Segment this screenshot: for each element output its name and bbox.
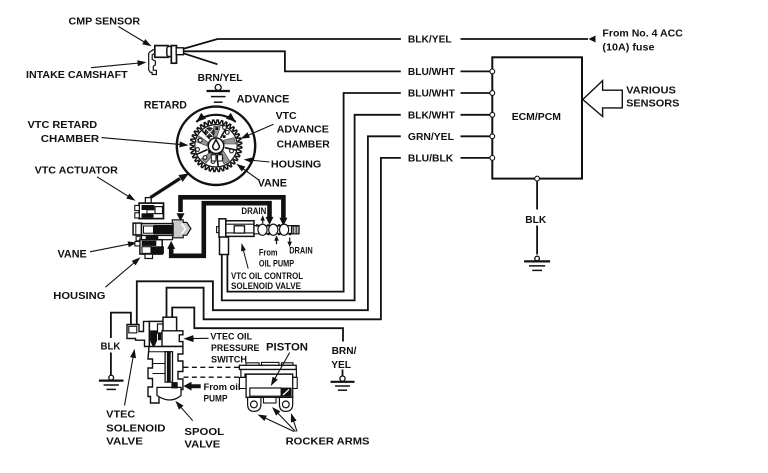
arrow VANE (gear) pointer	[242, 168, 258, 180]
svg-text:VTEC OIL: VTEC OIL	[210, 331, 252, 342]
wire BLU/BLK ECM pin 5 to VTEC oil pressure switch	[461, 157, 491, 159]
VTC actuator gear: lower detail rects	[211, 155, 216, 161]
oil pump feed arrow (valve bottom)	[276, 239, 278, 245]
arrow VTC ACTUATOR pointer	[97, 177, 129, 197]
svg-text:VALVE: VALVE	[184, 439, 220, 451]
arrow HOUSING (gear) pointer	[251, 160, 270, 162]
svg-text:INTAKE CAMSHAFT: INTAKE CAMSHAFT	[26, 69, 128, 81]
svg-text:From oil: From oil	[204, 382, 241, 393]
wire GRN/YEL ECM pin 4 to VTEC solenoid valve	[461, 135, 491, 137]
svg-text:From No. 4 ACC: From No. 4 ACC	[602, 29, 683, 40]
svg-text:From: From	[259, 248, 278, 258]
wire BLK/YEL from CMP sensor to fuse	[184, 39, 401, 49]
VTC actuator gear: bolt holes	[198, 138, 202, 142]
svg-text:VTC OIL CONTROL: VTC OIL CONTROL	[231, 271, 303, 281]
arrow VTC ADVANCE CHAMBER pointer	[247, 124, 273, 136]
svg-text:HOUSING: HOUSING	[53, 290, 105, 302]
svg-text:RETARD: RETARD	[144, 99, 187, 111]
VTC actuator gear: sprocket teeth	[190, 120, 242, 172]
thick arrow actuator to gear	[151, 179, 181, 198]
ECM pin 4	[490, 134, 495, 139]
svg-text:VTC: VTC	[276, 110, 297, 122]
svg-text:DRAIN: DRAIN	[289, 246, 313, 256]
VTC actuator gear: chamber walls	[225, 148, 237, 151]
svg-text:VTC ACTUATOR: VTC ACTUATOR	[35, 164, 119, 176]
arrow SPOOL VALVE pointer	[180, 406, 193, 421]
VTC actuator gear: hub with keyhole	[208, 138, 224, 154]
VARIOUS SENSORS block arrow	[583, 81, 623, 117]
ECM pin 2	[490, 91, 495, 96]
svg-text:CHAMBER: CHAMBER	[41, 133, 100, 145]
svg-text:BRN/: BRN/	[332, 345, 357, 357]
white diag marks on piston end	[283, 390, 289, 396]
label BLK pointer arrow (VTEC solenoid valve)	[125, 356, 134, 406]
CMP sensor body	[149, 46, 184, 75]
svg-text:PISTON: PISTON	[266, 342, 308, 354]
svg-text:BLK: BLK	[525, 214, 546, 226]
piston and rocker arm assembly	[239, 362, 297, 411]
arrow PISTON pointer	[274, 353, 289, 380]
ground symbol BRN/YEL (pressure switch)	[340, 376, 345, 381]
wire BRN/YEL CMP sensor ground lead	[184, 53, 218, 64]
wire BLK VTEC solenoid valve to ground	[111, 313, 131, 338]
arrow ROCKER ARMS pointer 2	[277, 412, 296, 431]
VTC actuator assembly (side view)	[133, 198, 191, 259]
drain arrow (valve bottom right)	[289, 238, 291, 244]
wire BLU/WHT CMP signal to ECM pin 1	[184, 51, 401, 71]
VTC actuator gear: vanes	[223, 138, 235, 144]
svg-text:VALVE: VALVE	[106, 436, 143, 448]
svg-text:DRAIN: DRAIN	[241, 206, 266, 216]
arrow VTC OIL CONTROL SOLENOID VALVE pointer	[243, 249, 248, 268]
svg-text:VTC RETARD: VTC RETARD	[28, 119, 98, 131]
svg-text:SENSORS: SENSORS	[626, 99, 680, 110]
wire BLK ECM ground	[536, 181, 538, 210]
thick oil line: advance passage (actuator top to valve)	[181, 197, 284, 218]
svg-text:VTEC: VTEC	[106, 409, 136, 421]
svg-text:BLU/WHT: BLU/WHT	[408, 67, 455, 78]
arrow INTAKE CAMSHAFT pointer	[91, 63, 139, 68]
svg-text:PRESSURE: PRESSURE	[211, 343, 259, 354]
svg-text:BLU/WHT: BLU/WHT	[408, 89, 455, 100]
VTC actuator gear: hatched bolt	[205, 128, 214, 137]
svg-text:PUMP: PUMP	[204, 393, 229, 404]
svg-text:ADVANCE: ADVANCE	[237, 94, 290, 106]
svg-text:HOUSING: HOUSING	[271, 159, 321, 171]
wire BRN/YEL pressure switch to ground	[172, 308, 343, 342]
arrow ROCKER ARMS pointer 3	[293, 420, 297, 432]
svg-text:GRN/YEL: GRN/YEL	[408, 132, 454, 143]
VTC oil control solenoid valve body	[217, 219, 299, 255]
svg-text:VANE: VANE	[58, 248, 87, 260]
svg-text:ECM/PCM: ECM/PCM	[512, 111, 562, 123]
oil passage dashed lines to piston	[184, 366, 241, 368]
arrow ROCKER ARMS pointer 1	[264, 418, 294, 432]
svg-text:SOLENOID VALVE: SOLENOID VALVE	[231, 281, 301, 291]
arrow VTEC OIL PRESSURE SWITCH pointer	[192, 337, 209, 339]
VTC actuator gear: housing outer circle	[177, 107, 255, 185]
ground symbol BLK (ECM)	[535, 256, 540, 261]
arrow VTC RETARD CHAMBER pointer	[102, 138, 182, 145]
arrow HOUSING (actuator) pointer	[105, 262, 135, 287]
svg-text:BLK/YEL: BLK/YEL	[408, 35, 452, 46]
arrow VANE (actuator) pointer	[90, 244, 130, 252]
svg-text:SOLENOID: SOLENOID	[106, 422, 166, 434]
arrow CMP SENSOR pointer	[119, 27, 146, 43]
svg-text:(10A) fuse: (10A) fuse	[602, 42, 655, 53]
ECM ground pin	[535, 176, 540, 181]
svg-text:OIL PUMP: OIL PUMP	[259, 258, 294, 268]
ground symbol BLK (VTEC solenoid valve)	[109, 375, 114, 380]
svg-text:BLK: BLK	[101, 341, 121, 353]
retard/advance curved arrow	[196, 115, 235, 122]
svg-text:SWITCH: SWITCH	[211, 354, 247, 365]
From oil PUMP solid arrow	[184, 382, 201, 391]
wire BLK/WHT ECM pin 3 to VTC oil control solenoid valve	[461, 114, 491, 116]
svg-text:SPOOL: SPOOL	[184, 426, 224, 438]
svg-text:CMP SENSOR: CMP SENSOR	[69, 15, 141, 27]
svg-text:CHAMBER: CHAMBER	[277, 138, 331, 150]
svg-text:ROCKER ARMS: ROCKER ARMS	[286, 436, 370, 448]
ground symbol BRN/YEL (CMP sensor)	[215, 84, 221, 90]
svg-text:BRN/YEL: BRN/YEL	[198, 72, 243, 84]
wire BLU/WHT ECM pin 2 to VTC oil control solenoid valve	[461, 92, 491, 94]
ECM pin 5	[490, 156, 495, 161]
svg-text:BLK/WHT: BLK/WHT	[408, 110, 455, 121]
ECM/PCM box U1	[492, 57, 582, 178]
drain arrow (valve top)	[262, 218, 264, 223]
svg-text:YEL: YEL	[331, 359, 351, 371]
thick oil line: retard passage (actuator bottom to valve)	[171, 203, 269, 256]
ECM pin 3	[490, 112, 495, 117]
VTEC solenoid valve assembly	[127, 317, 183, 403]
svg-text:ADVANCE: ADVANCE	[277, 123, 329, 135]
svg-text:VARIOUS: VARIOUS	[626, 85, 676, 96]
ECM pin 1	[490, 69, 495, 74]
svg-text:BLU/BLK: BLU/BLK	[408, 153, 454, 164]
svg-text:VANE: VANE	[258, 177, 287, 189]
